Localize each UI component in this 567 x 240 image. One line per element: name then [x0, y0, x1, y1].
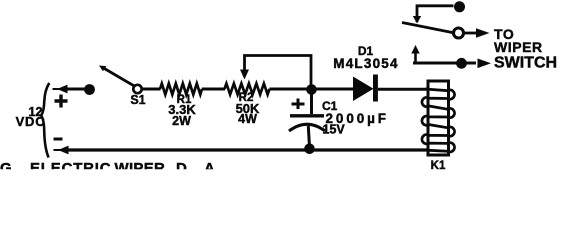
capacitor C1 top plate: [290, 114, 324, 117]
R2 wiper arm loop: [245, 56, 312, 87]
R1 labels: [168, 94, 196, 128]
wire R1 to R2: [202, 88, 225, 91]
node at S1 left terminal: [84, 84, 95, 95]
arrow from contact to label: [464, 32, 478, 35]
relay contact common top line: [417, 6, 454, 22]
wire R2 to D1: [269, 88, 353, 91]
relay contact NO circle: [454, 28, 464, 38]
junction node wiper / C1 top: [306, 84, 317, 95]
svg-text:A: A: [204, 160, 215, 171]
relay K1 coil winding: [422, 89, 455, 152]
caption clipped at bottom: [0, 160, 215, 177]
TO WIPER SWITCH label: [494, 26, 557, 71]
svg-text:ELECTRIC: ELECTRIC: [30, 160, 111, 171]
capacitor C1 plus sign: [292, 99, 305, 110]
minus terminal sign: [54, 138, 63, 141]
diode D1 triangle: [353, 77, 374, 102]
R2 labels: [236, 92, 260, 126]
diode D1 cathode bar: [373, 75, 378, 102]
svg-text:SWITCH: SWITCH: [494, 54, 557, 71]
svg-text:S1: S1: [130, 93, 145, 107]
wire positive lead with left arrow: [53, 88, 67, 90]
resistor R1: [160, 84, 202, 95]
D1 labels: [333, 44, 398, 71]
wire S1 to R1: [142, 88, 161, 91]
plus terminal sign: [55, 95, 68, 108]
switch S1 lever: [104, 68, 137, 87]
svg-text:15V: 15V: [323, 123, 346, 137]
relay contact lower terminal line: [413, 62, 476, 65]
battery brace: [41, 83, 49, 158]
svg-text:WIPER: WIPER: [494, 39, 543, 55]
resistor R2: [225, 84, 270, 95]
bottom rail wire: [54, 149, 68, 151]
svg-text:WIPER: WIPER: [115, 160, 166, 171]
switch S1 contact circle: [133, 85, 141, 93]
svg-text:D: D: [176, 160, 187, 171]
C1 labels: [322, 99, 389, 137]
svg-text:M4L3054: M4L3054: [333, 56, 398, 71]
svg-text:G: G: [0, 160, 12, 171]
capacitor C1 bottom curved plate: [289, 124, 325, 131]
relay K1 core: [428, 81, 449, 155]
wire D1 to relay: [378, 88, 428, 91]
capacitor C1 top lead: [310, 92, 313, 114]
up arrow on lower contact: [414, 53, 417, 63]
relay contact top terminal dot: [454, 1, 465, 12]
svg-text:VDC: VDC: [16, 114, 46, 129]
relay contact armature lever: [402, 23, 453, 33]
svg-text:4W: 4W: [238, 112, 257, 126]
svg-text:2W: 2W: [172, 114, 191, 128]
12 VDC label: [16, 105, 46, 129]
capacitor C1 bottom lead: [308, 126, 309, 147]
node C1 bottom: [304, 144, 315, 155]
svg-text:K1: K1: [431, 160, 446, 171]
